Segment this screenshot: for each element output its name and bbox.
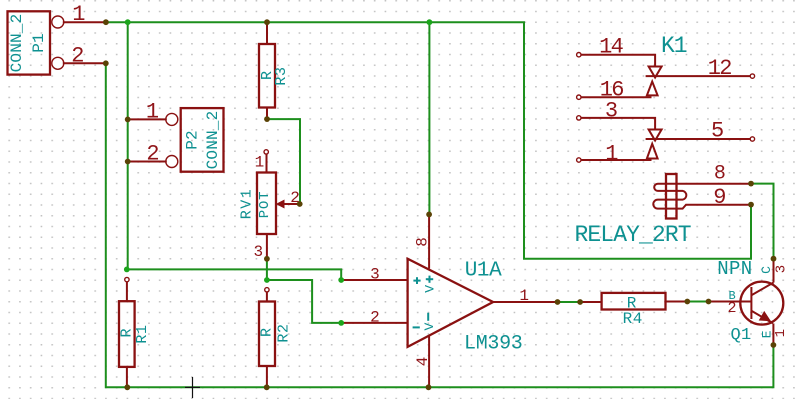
cursor crosshair: [185, 377, 200, 398]
K1 contact 1 moving arm: [649, 67, 662, 78]
junction node R4 left: [577, 299, 583, 305]
relay K1 labels: [575, 33, 691, 248]
svg-text:9: 9: [713, 185, 726, 210]
svg-text:POT: POT: [257, 191, 273, 219]
RV1 pin 1: [255, 150, 269, 173]
svg-text:U1A: U1A: [465, 259, 502, 282]
svg-text:1: 1: [72, 2, 85, 27]
svg-text:R4: R4: [623, 310, 643, 328]
svg-text:NPN: NPN: [717, 258, 752, 280]
Q1 emitter pin: [751, 311, 789, 344]
K1 pin 3: [577, 99, 656, 130]
svg-text:1: 1: [519, 287, 529, 305]
U1A pin 1: [493, 287, 557, 305]
wire left rail P1 pin2 down, bottom bus, up to Q1 emitter: [106, 63, 774, 387]
junction node coil pin9: [748, 202, 754, 208]
svg-text:CONN_2: CONN_2: [8, 14, 26, 73]
svg-text:V: V: [422, 323, 437, 331]
K1 pin 14: [577, 34, 656, 66]
svg-text:R: R: [119, 328, 136, 337]
K1 pin 12: [646, 56, 755, 81]
wire R1 top to U1A pin3: [127, 269, 341, 280]
svg-text:V: V: [422, 285, 437, 293]
junction node P2 pin1: [125, 117, 131, 123]
K1 contact 2 moving arm: [649, 130, 662, 141]
K1 pin 16: [577, 77, 658, 102]
wire R4 to Q1 base: [687, 301, 708, 303]
junction node Q1 base: [706, 299, 712, 305]
svg-text:4: 4: [414, 357, 432, 367]
junction node U1A pin8: [426, 212, 432, 218]
svg-text:R1: R1: [134, 324, 151, 343]
svg-text:2: 2: [728, 300, 737, 317]
junction node A top bus: [125, 19, 131, 25]
svg-text:2: 2: [370, 309, 380, 327]
svg-text:RV1: RV1: [239, 188, 256, 220]
junction node P2 pin2: [125, 159, 131, 165]
svg-text:C: C: [759, 266, 774, 274]
wire top bus from P1 pin1 to relay pin9: [106, 22, 751, 259]
svg-text:P1: P1: [30, 33, 48, 53]
wire U1A pin8 drop: [428, 22, 430, 214]
svg-text:P2: P2: [184, 130, 202, 150]
svg-text:3: 3: [605, 99, 618, 124]
svg-text:R3: R3: [273, 66, 290, 85]
junction node R2 bottom: [264, 384, 270, 390]
Q1 collector pin: [751, 259, 789, 295]
svg-text:8: 8: [714, 162, 726, 185]
junction node R4 right: [684, 299, 690, 305]
junction node RV1 wiper: [297, 201, 303, 207]
wire RV1 pin3 to U1A pin2: [267, 259, 341, 323]
junction node P1 pin2: [103, 60, 109, 66]
wire vertical node A down to R1: [127, 22, 129, 269]
junction node pin8 drop: [427, 19, 433, 25]
potentiometer RV1: [239, 173, 277, 235]
wire R3 bottom to RV1 wiper: [267, 119, 300, 204]
svg-text:2: 2: [71, 44, 84, 69]
U1A pin 8: [414, 217, 432, 269]
K1 pin 5: [646, 119, 755, 144]
svg-text:1: 1: [773, 329, 789, 337]
svg-text:R: R: [259, 328, 276, 337]
P1 pin 2: [52, 44, 106, 70]
svg-text:RELAY_2RT: RELAY_2RT: [575, 222, 691, 248]
P1 pin 1: [52, 2, 106, 28]
resistor R4: [580, 293, 687, 328]
P2 pin 2: [128, 142, 178, 168]
P2 pin 1: [128, 100, 178, 126]
K1 coil: [653, 174, 751, 219]
junction node U1A pin1: [555, 299, 561, 305]
wire relay coil pin8 to Q1 collector: [751, 184, 774, 259]
svg-text:5: 5: [711, 119, 724, 144]
junction node R2 net: [264, 277, 270, 283]
svg-text:1: 1: [605, 141, 618, 166]
U1A V+ label: [422, 276, 437, 293]
svg-text:CONN_2: CONN_2: [204, 111, 222, 170]
U1A pin 4: [414, 336, 432, 388]
junction node RV1 pin3: [264, 256, 270, 262]
svg-text:1: 1: [146, 100, 159, 125]
connector P2: [181, 108, 224, 172]
svg-text:R2: R2: [276, 323, 293, 342]
junction node coil pin8: [748, 181, 754, 187]
junction node R1 bottom: [124, 384, 130, 390]
resistor R3: [259, 22, 290, 119]
op-amp U1A LM393: [408, 259, 523, 356]
svg-text:2: 2: [146, 142, 159, 167]
svg-text:1: 1: [255, 154, 265, 172]
resistor R1: [119, 277, 152, 387]
Q1 base pin labels: [728, 289, 737, 317]
RV1 pin 3: [253, 234, 266, 261]
U1A plus input mark: [413, 277, 420, 284]
junction node U1A pin3: [338, 277, 344, 283]
junction node U1A pin4: [426, 384, 432, 390]
junction node R3 bottom: [264, 116, 270, 122]
svg-text:K1: K1: [661, 33, 687, 59]
svg-text:14: 14: [599, 34, 624, 59]
svg-text:LM393: LM393: [464, 333, 523, 356]
junction node P1pin1-wire: [103, 19, 109, 25]
U1A V- label: [422, 313, 437, 331]
svg-text:8: 8: [414, 237, 432, 247]
junction node R1 top: [124, 267, 130, 273]
svg-text:Q1: Q1: [731, 326, 752, 345]
junction node U1A pin2: [338, 320, 344, 326]
U1A minus input mark: [413, 326, 420, 328]
RV1 pin 2 wiper: [276, 189, 300, 209]
transistor Q1 NPN: [709, 258, 784, 345]
junction node R3 top: [264, 19, 270, 25]
svg-text:3: 3: [774, 265, 790, 273]
U1A pin 3: [341, 266, 407, 284]
svg-text:3: 3: [370, 266, 380, 284]
junction node Q1 collector: [771, 256, 777, 262]
wire U1A output to R4: [558, 301, 581, 303]
svg-text:E: E: [759, 330, 774, 338]
svg-text:3: 3: [253, 243, 263, 261]
connector P1: [8, 11, 51, 74]
svg-text:12: 12: [708, 56, 732, 81]
resistor R2: [259, 288, 293, 388]
U1A pin 2: [341, 309, 407, 327]
K1 pin 1: [577, 141, 658, 166]
junction node Q1 emitter: [771, 342, 777, 348]
